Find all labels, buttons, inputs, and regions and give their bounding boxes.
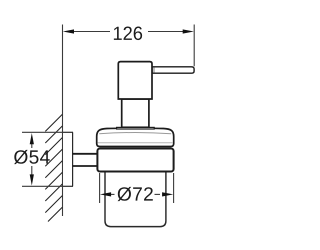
dimension O54 extension lines bbox=[22, 132, 63, 186]
wall line bbox=[62, 25, 64, 217]
dimension O72 arrow left bbox=[100, 192, 111, 196]
dimension 126 label bbox=[114, 26, 142, 40]
pump flange bbox=[117, 127, 155, 129]
dimension O54 line bbox=[31, 143, 33, 176]
pump neck bbox=[122, 99, 149, 127]
dimension 126 arrow left bbox=[63, 29, 74, 33]
dimension O54 arrow up bbox=[30, 133, 34, 144]
dimension O54 label bbox=[14, 150, 50, 164]
dimension O72 arrow right bbox=[162, 192, 173, 196]
pump head bbox=[118, 62, 152, 99]
holder ring bbox=[97, 149, 173, 172]
dimension 126 arrow right bbox=[183, 29, 194, 33]
pump spout bbox=[152, 67, 194, 73]
lid inner line lower bbox=[98, 142, 174, 144]
dimension O72 extension lines bbox=[100, 173, 174, 203]
wall hatching bbox=[45, 114, 62, 221]
wall plate rosette bbox=[63, 133, 72, 186]
dimension O54 arrow down bbox=[30, 174, 34, 185]
lid dome bbox=[97, 128, 174, 146]
spout root shading bbox=[153, 68, 155, 73]
glass tumbler bbox=[105, 170, 166, 227]
dimension O72 line bbox=[110, 193, 160, 195]
holder arm bbox=[73, 154, 99, 166]
lid inner line upper bbox=[99, 133, 171, 134]
dimension 126 line bbox=[73, 31, 184, 33]
dimension O72 label bbox=[118, 187, 153, 201]
dimension 126 extension line right bbox=[193, 25, 195, 67]
